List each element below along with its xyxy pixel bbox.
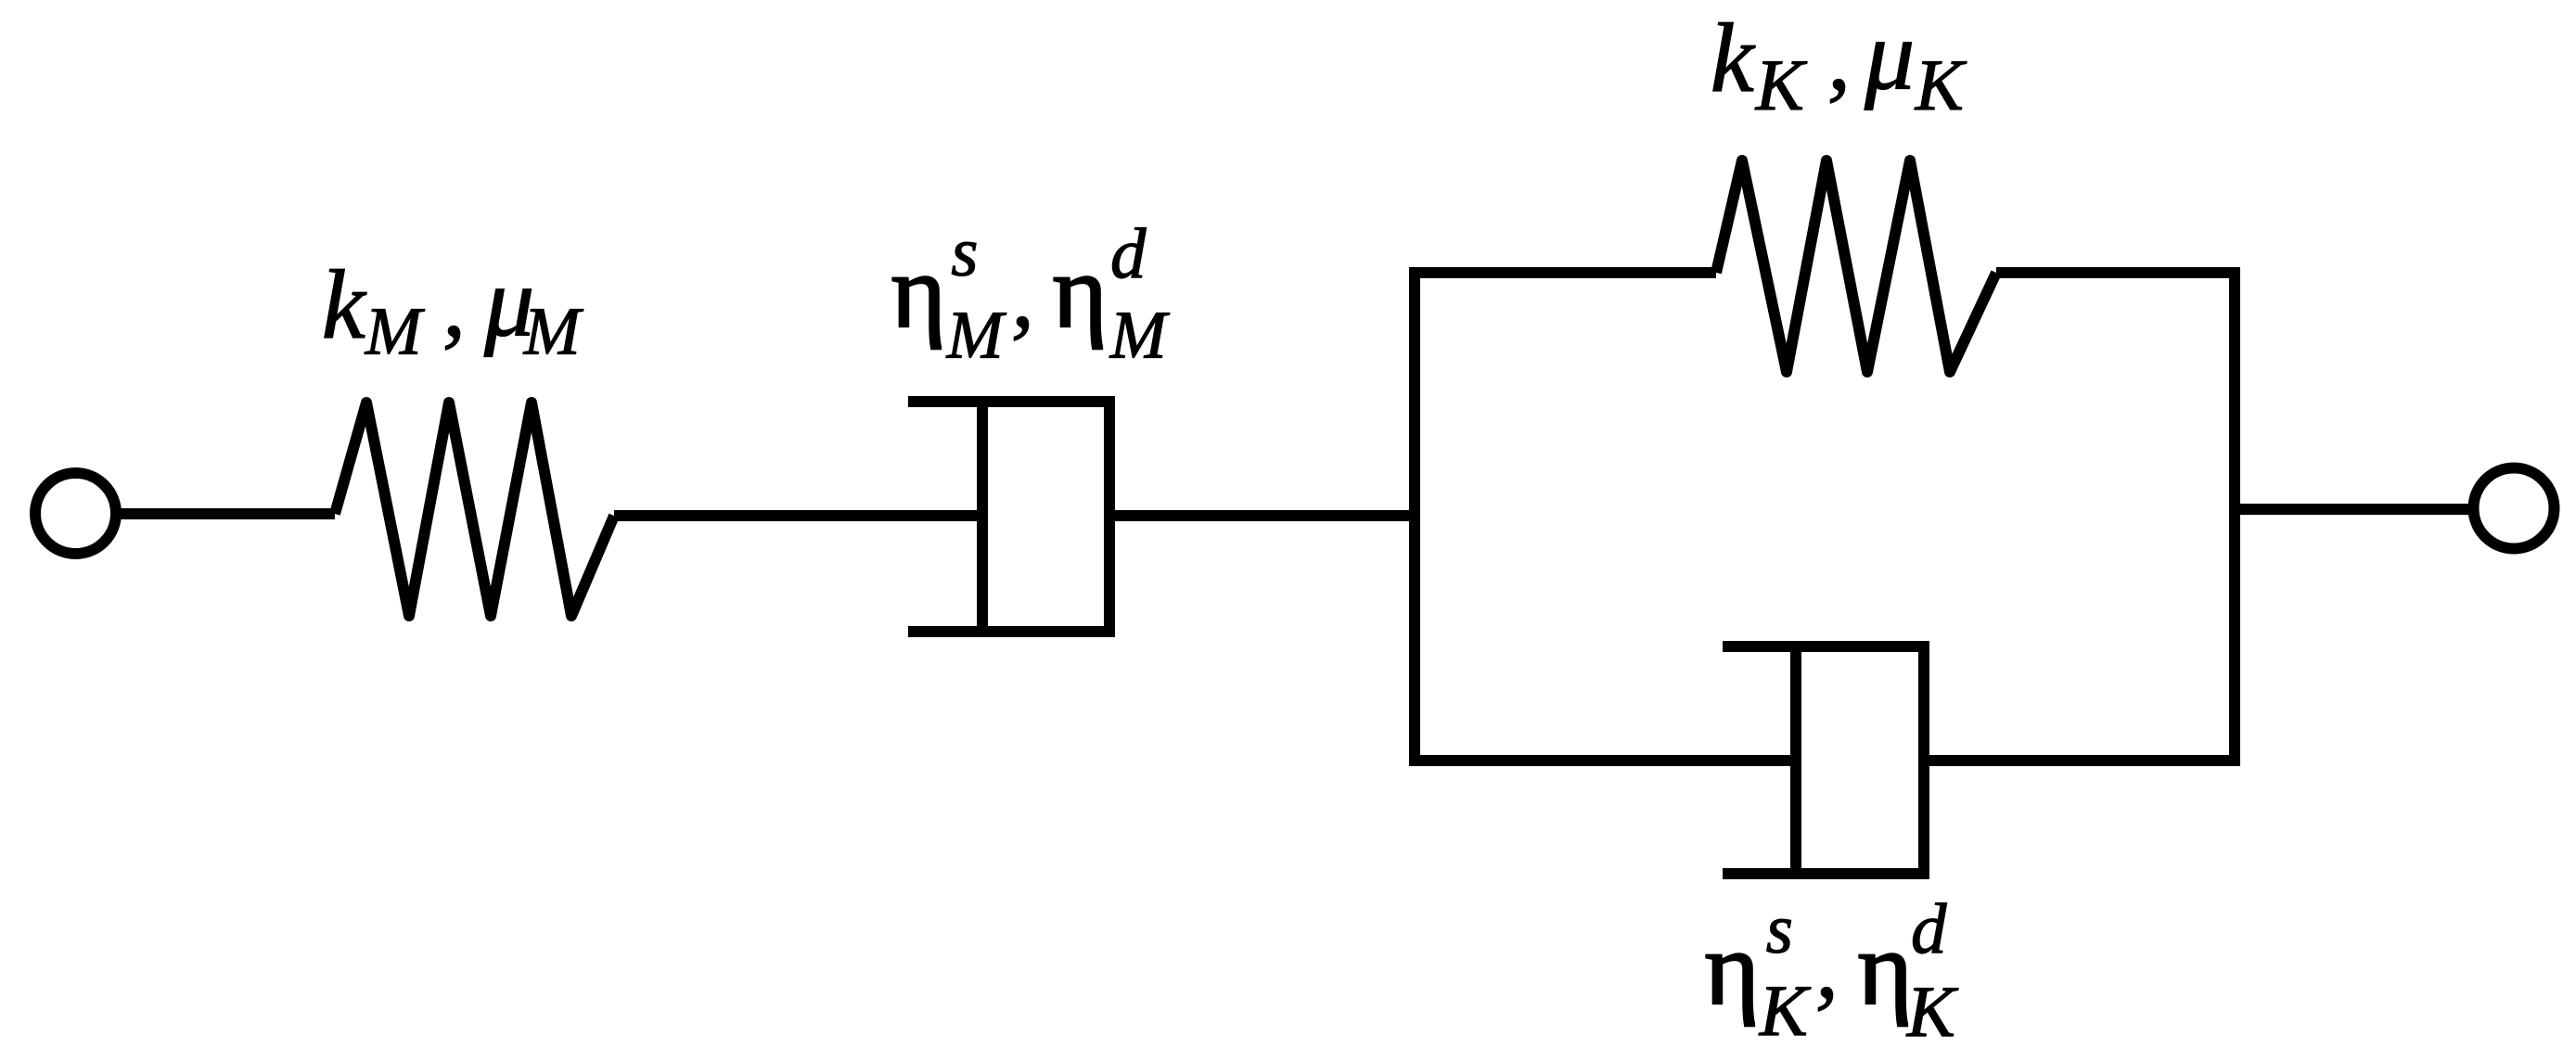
svg-text:K: K	[1759, 970, 1812, 1049]
svg-text:η: η	[1705, 911, 1760, 1027]
label: kM , muM (Maxwell spring values)	[322, 247, 584, 368]
wire: dashpot etaM to Kelvin left junction bar	[1109, 510, 1415, 521]
svg-text:k: k	[1711, 4, 1756, 112]
spring kK (Kelvin spring)	[1716, 160, 1996, 372]
svg-text:M: M	[523, 294, 584, 369]
wire: Kelvin bottom branch right segment	[1924, 755, 2240, 766]
svg-text:K: K	[1906, 971, 1959, 1049]
node: right terminal circle	[2474, 468, 2555, 549]
svg-text:s: s	[951, 214, 978, 291]
svg-text:K: K	[1915, 45, 1967, 125]
dashpot etaK cylinder top wall	[1723, 641, 1929, 652]
wire: left terminal to spring kM	[115, 508, 335, 519]
svg-text:d: d	[1110, 213, 1147, 293]
wire: Kelvin right bar to right terminal	[2235, 504, 2469, 515]
svg-text:,: ,	[1815, 915, 1839, 1017]
svg-text:k: k	[322, 250, 367, 359]
junction: Kelvin-Voigt right vertical bar	[2229, 267, 2240, 766]
dashpot etaK (Kelvin dashpot) piston plate	[1790, 641, 1801, 879]
wire: Kelvin bottom branch left segment	[1409, 755, 1796, 766]
svg-text:M: M	[365, 294, 426, 369]
spring kM (Maxwell spring)	[335, 403, 614, 616]
dashpot etaM cylinder bottom wall	[908, 626, 1113, 637]
svg-text:d: d	[1911, 889, 1947, 968]
svg-text:η: η	[891, 234, 946, 350]
label: etaK^s , etaK^d (Kelvin dashpot values)	[1705, 889, 1959, 1049]
svg-text:μ: μ	[1864, 0, 1915, 110]
label: kK , muK (Kelvin spring values)	[1711, 0, 1967, 124]
dashpot etaM cylinder top wall	[908, 396, 1113, 407]
dashpot etaK cylinder bottom wall	[1723, 868, 1929, 879]
svg-text:s: s	[1766, 891, 1793, 968]
svg-text:M: M	[946, 298, 1007, 373]
svg-text:,: ,	[1827, 6, 1851, 109]
junction: Kelvin-Voigt left vertical bar	[1409, 267, 1420, 766]
wire: Kelvin top branch left segment	[1409, 267, 1716, 278]
svg-text:M: M	[1109, 298, 1171, 373]
dashpot etaK cylinder right wall	[1918, 641, 1929, 879]
svg-text:η: η	[1858, 911, 1913, 1027]
wire: spring kM to dashpot etaM piston	[614, 510, 982, 521]
wire: Kelvin top branch right segment	[1996, 267, 2235, 278]
svg-text:,: ,	[442, 253, 466, 356]
dashpot etaM cylinder right wall	[1104, 396, 1115, 637]
svg-text:,: ,	[1011, 244, 1034, 347]
svg-text:η: η	[1053, 234, 1108, 350]
label: etaM^s , etaM^d (Maxwell dashpot values)	[891, 213, 1171, 373]
svg-text:K: K	[1755, 45, 1808, 125]
node: left terminal circle	[35, 473, 116, 554]
dashpot etaM (Maxwell dashpot) piston plate	[977, 396, 988, 637]
